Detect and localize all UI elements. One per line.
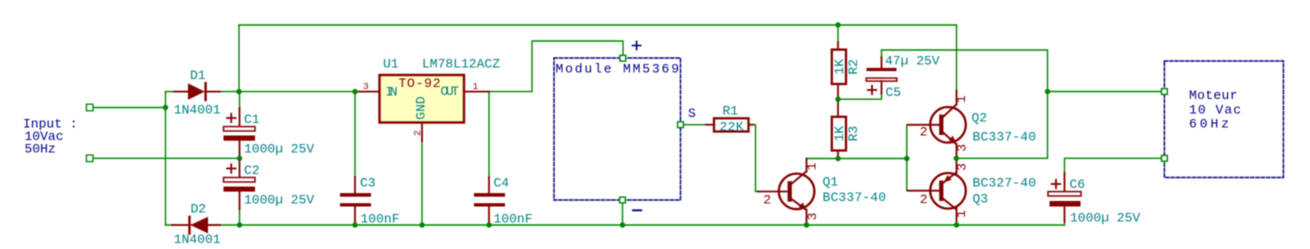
motor pin bottom square: [1162, 155, 1168, 161]
svg-text:IN: IN: [386, 85, 398, 100]
svg-text:2: 2: [920, 192, 928, 207]
svg-text:Moteur: Moteur: [1189, 88, 1238, 103]
input terminal 2 square: [86, 155, 93, 162]
transistor Q1: [758, 159, 814, 226]
svg-text:C3: C3: [360, 176, 376, 191]
capacitor C5: [866, 57, 897, 94]
svg-text:LM78L12ACZ: LM78L12ACZ: [422, 57, 500, 72]
transistor Q2: [908, 91, 966, 159]
wire D1 anode stub: [166, 91, 175, 93]
diode D2: [172, 217, 220, 234]
wire module minus to bus: [622, 204, 624, 225]
svg-text:3: 3: [363, 81, 369, 92]
input terminal 1 square: [86, 104, 93, 111]
junction node R2 top: [835, 22, 840, 27]
wire input terminal 1: [93, 107, 166, 109]
wire C2 to bottom bus: [239, 208, 241, 225]
resistor R2: [832, 42, 846, 99]
svg-text:C2: C2: [244, 163, 260, 178]
junction node motor top: [1045, 89, 1050, 94]
wire module S to R1: [685, 124, 707, 126]
svg-text:1000µ 25V: 1000µ 25V: [244, 142, 314, 157]
svg-text:OUT: OUT: [441, 84, 460, 99]
wire to motor top: [1048, 91, 1161, 93]
svg-text:50Hz: 50Hz: [25, 141, 56, 156]
wire C6 to motor bottom: [1065, 158, 1161, 173]
wire top bus: [239, 24, 957, 26]
svg-text:100nF: 100nF: [361, 212, 400, 227]
svg-text:1000µ 25V: 1000µ 25V: [1070, 211, 1140, 226]
wire riser left top: [238, 25, 240, 92]
junction node Q3 collector bus: [954, 222, 959, 227]
svg-text:R1: R1: [723, 104, 739, 119]
svg-text:Q1: Q1: [823, 175, 839, 190]
wire R1 to Q1 base: [752, 125, 758, 192]
svg-text:1: 1: [473, 81, 479, 92]
junction node C1 C2 input: [237, 156, 242, 161]
wire C3 branch: [354, 92, 356, 177]
svg-text:10 Vac: 10 Vac: [1189, 102, 1241, 117]
junction node C3 bus: [352, 222, 357, 227]
svg-text:D2: D2: [191, 202, 207, 217]
svg-text:1K: 1K: [832, 126, 847, 142]
wire base riser Q2 Q3: [906, 125, 908, 191]
junction node D1 input: [163, 105, 168, 110]
wire R2 top stub: [837, 25, 839, 42]
junction node C4 bus: [486, 222, 491, 227]
svg-text:BC337-40: BC337-40: [823, 190, 887, 205]
svg-text:C1: C1: [244, 112, 260, 127]
svg-text:22K: 22K: [720, 120, 744, 135]
wire input terminal 2: [93, 157, 240, 159]
resistor R3: [832, 99, 846, 158]
sheet pin plus label: [633, 41, 641, 49]
svg-text:GND: GND: [413, 96, 428, 120]
wire U1 pin1 to module: [489, 41, 623, 92]
svg-text:BC327-40: BC327-40: [973, 176, 1037, 191]
motor load box: [1164, 61, 1283, 178]
module MM5369 sheet: [554, 58, 681, 200]
junction node module bus: [620, 222, 625, 227]
wire C5 top net to emitters: [882, 50, 1048, 158]
capacitor C3: [340, 177, 371, 225]
junction node U1 pin3: [352, 89, 357, 94]
wire bottom bus: [166, 224, 1065, 226]
capacitor C1: [224, 108, 256, 158]
wire left vertical: [165, 92, 167, 225]
svg-text:1000µ 25V: 1000µ 25V: [244, 193, 314, 208]
wire Q1 collector row: [807, 158, 907, 160]
svg-text:Q2: Q2: [972, 111, 988, 126]
sheet pin minus label: [633, 209, 641, 211]
diode D1: [174, 83, 220, 100]
motor pin top square: [1162, 89, 1168, 95]
svg-text:47µ 25V: 47µ 25V: [885, 54, 940, 69]
svg-text:D1: D1: [190, 68, 206, 83]
svg-text:1: 1: [954, 210, 969, 218]
wire C5 bottom link: [838, 93, 882, 99]
wire D1 cathode to node: [220, 91, 355, 93]
svg-text:R3: R3: [846, 126, 861, 142]
svg-text:2: 2: [763, 192, 771, 207]
resistor R1: [706, 118, 753, 131]
junction node base riser: [904, 156, 909, 161]
svg-text:2: 2: [412, 130, 423, 136]
svg-text:U1: U1: [383, 57, 399, 72]
svg-text:1: 1: [804, 162, 819, 170]
svg-text:3: 3: [955, 163, 970, 171]
wire C4 branch: [488, 92, 490, 177]
sheet pin S square: [678, 122, 684, 128]
svg-text:BC337-40: BC337-40: [973, 130, 1037, 145]
svg-text:1N4001: 1N4001: [174, 232, 221, 247]
svg-text:S: S: [688, 106, 696, 121]
capacitor C6: [1048, 173, 1081, 222]
wire C6 to bottom bus: [1064, 221, 1066, 225]
junction node R3 bottom: [835, 156, 840, 161]
regulator U1: [357, 75, 489, 141]
capacitor C4: [474, 177, 505, 225]
junction node Q1 emitter bus: [804, 222, 809, 227]
junction node emitters: [954, 156, 959, 161]
capacitor C2: [224, 158, 256, 209]
sheet pin plus square: [620, 55, 626, 61]
transistor Q3: [908, 158, 966, 225]
svg-text:1: 1: [954, 95, 969, 103]
junction node gnd bus: [419, 222, 424, 227]
svg-text:3: 3: [805, 213, 820, 221]
svg-text:Q3: Q3: [973, 192, 989, 207]
svg-text:100nF: 100nF: [494, 212, 533, 227]
wire C1 C2 branch: [239, 92, 241, 110]
svg-text:C5: C5: [886, 85, 902, 100]
svg-text:TO-92: TO-92: [399, 76, 441, 91]
svg-text:1K: 1K: [832, 59, 847, 75]
svg-text:2: 2: [920, 124, 928, 139]
svg-text:C6: C6: [1070, 177, 1086, 192]
junction node R2 R3 C5: [835, 97, 840, 102]
sheet pin minus square: [620, 197, 626, 203]
wire U1 gnd down: [421, 140, 423, 225]
svg-text:3: 3: [955, 144, 970, 152]
svg-text:R2: R2: [846, 59, 861, 75]
svg-text:C4: C4: [494, 176, 510, 191]
wire drop right top to Q2 collector: [956, 25, 958, 91]
junction node D1 cathode: [236, 89, 241, 94]
junction node C2 bus: [237, 222, 242, 227]
svg-text:1N4001: 1N4001: [174, 103, 221, 118]
